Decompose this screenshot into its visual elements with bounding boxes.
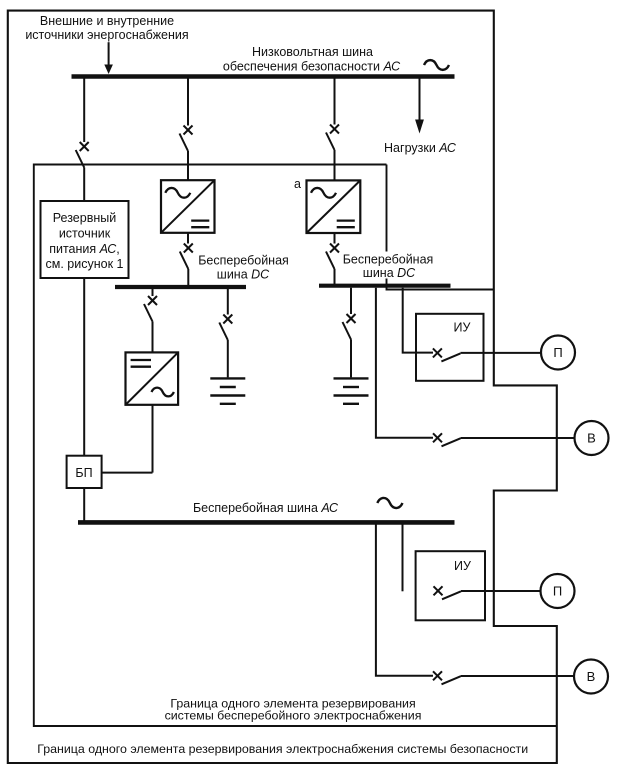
wire: drop A from top bus xyxy=(83,79,85,143)
wire: to П circle 2 xyxy=(461,590,541,592)
wire: to В circle 2 xyxy=(461,675,575,677)
wire: ИУ2 feed from AC bus (dangling) xyxy=(402,525,404,592)
svg-text:Граница одного элемента резерв: Граница одного элемента резервирования э… xyxy=(37,742,528,756)
svg-text:обеспечения безопасности АС: обеспечения безопасности АС xyxy=(223,60,401,74)
breaker QF9 (В row 1) xyxy=(433,433,461,446)
svg-text:а: а xyxy=(294,177,301,191)
svg-text:питания АС,: питания АС, xyxy=(49,242,120,256)
svg-text:см. рисунок 1: см. рисунок 1 xyxy=(46,257,124,271)
svg-text:шина DC: шина DC xyxy=(217,267,270,281)
wire: П feed 1 from DC bus 2 xyxy=(403,288,433,353)
svg-text:системы бесперебойного электро: системы бесперебойного электроснабжения xyxy=(165,709,422,723)
svg-text:Внешние и внутренние: Внешние и внутренние xyxy=(40,14,174,28)
wire: drop A to reserve box xyxy=(83,168,85,202)
svg-text:источники энергоснабжения: источники энергоснабжения xyxy=(25,28,188,42)
svg-text:БП: БП xyxy=(75,466,92,480)
source arrow into top bus xyxy=(104,42,113,74)
wire: breaker to DC bus 1 xyxy=(187,269,189,285)
wire: breaker to inverter xyxy=(152,322,154,353)
svg-text:В: В xyxy=(587,431,596,446)
terminal В2 xyxy=(574,660,608,694)
DC bus 1: Бесперебойная шина DC xyxy=(115,285,246,289)
terminal П1 xyxy=(541,336,575,370)
wire: drop C from top bus xyxy=(334,79,336,125)
breaker QF8 (battery 2) xyxy=(343,314,356,340)
svg-text:шина DC: шина DC xyxy=(363,266,416,280)
DC bus 2: Бесперебойная шина DC xyxy=(319,284,451,288)
rectifier U1 (AC/DC) xyxy=(161,180,215,233)
svg-text:ИУ: ИУ xyxy=(454,321,471,335)
inner boundary: Граница одного элемента резервирования системы бесперебойного электроснабжения xyxy=(34,165,557,727)
top AC safety bus: Низковольтная шина обеспечения безопасности AC xyxy=(72,74,455,78)
svg-text:П: П xyxy=(553,584,562,599)
wire: horizontal link to БП xyxy=(102,472,153,474)
svg-text:источник: источник xyxy=(59,227,111,241)
wire: inverter down to БП link xyxy=(152,405,154,473)
breaker QF1 (drop A) xyxy=(76,142,89,168)
svg-text:ИУ: ИУ xyxy=(454,559,471,573)
breaker QF2 (drop B) xyxy=(180,126,193,152)
svg-text:Резервный: Резервный xyxy=(53,211,116,225)
svg-text:Бесперебойная: Бесперебойная xyxy=(198,254,289,268)
ИУ box 1 xyxy=(416,314,484,381)
wire: breaker to DC bus 2 xyxy=(334,269,336,284)
sine symbol over AC bus xyxy=(377,498,402,508)
ИУ box 2 xyxy=(416,551,485,620)
loads arrow: Нагрузки AC xyxy=(415,79,424,134)
breaker QF6 (inverter feed) xyxy=(144,296,157,322)
wire: breaker to battery GB1 xyxy=(227,340,229,377)
sine symbol over top bus xyxy=(424,60,449,70)
wire: DC bus2 to В row 1 xyxy=(376,288,433,438)
breaker QF12 (П row 2, in ИУ) xyxy=(434,586,462,599)
AC bus: Бесперебойная шина AC xyxy=(78,520,455,525)
wire: reserve box to БП box xyxy=(83,278,85,456)
battery GB1 xyxy=(210,378,245,403)
wire: DC bus1 to battery breaker xyxy=(227,289,229,315)
breaker QF5 (under U2) xyxy=(326,244,339,270)
breaker QF11 (В row 2) xyxy=(433,671,461,684)
battery GB2 xyxy=(334,378,369,403)
label: DC bus 2 (white mask over boundary line) xyxy=(341,252,436,279)
wire: to П circle 1 xyxy=(460,352,541,354)
wire: rectifier U2 to breaker xyxy=(334,233,336,244)
breaker QF7 (battery 1) xyxy=(219,315,232,341)
wire: rectifier U1 to breaker xyxy=(187,233,189,244)
inverter U3 (DC/AC) xyxy=(126,352,179,404)
breaker QF10 (П row 1, in ИУ) xyxy=(433,348,461,361)
wire: drop B to rectifier U1 xyxy=(187,151,189,181)
wire: drop B from top bus xyxy=(187,79,189,126)
svg-text:Бесперебойная шина АС: Бесперебойная шина АС xyxy=(193,501,339,515)
БП box xyxy=(67,456,102,488)
terminal В1 xyxy=(575,421,609,455)
wire: DC bus2 to battery breaker xyxy=(350,288,352,314)
terminal П2 xyxy=(541,574,575,608)
breaker QF3 (drop C) xyxy=(326,125,339,151)
wire: AC bus to В row 2 xyxy=(376,525,433,676)
svg-text:Бесперебойная: Бесперебойная xyxy=(343,253,434,267)
rectifier U2 (AC/DC) xyxy=(307,180,361,233)
inner boundary right segment xyxy=(387,165,494,290)
wire: drop C to rectifier U2 xyxy=(334,150,336,181)
wire: to В circle 1 xyxy=(461,437,575,439)
wire: DC bus1 to inverter breaker xyxy=(152,289,154,296)
reserve source box: Резервный источник питания AC xyxy=(41,201,129,278)
svg-text:П: П xyxy=(553,345,562,360)
breaker QF4 (under U1) xyxy=(180,244,193,270)
wire: БП to AC bus xyxy=(83,488,85,521)
svg-text:Нагрузки АС: Нагрузки АС xyxy=(384,141,457,155)
svg-text:Низковольтная шина: Низковольтная шина xyxy=(252,45,373,59)
wire: breaker to battery GB2 xyxy=(350,340,352,378)
svg-text:В: В xyxy=(587,669,596,684)
